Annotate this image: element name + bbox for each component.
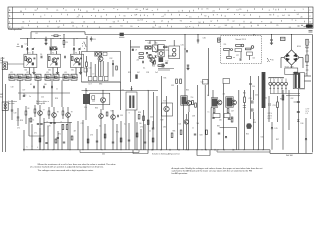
coupling cap C62 <box>297 101 300 103</box>
svg-text:R36: R36 <box>95 108 98 110</box>
ground rail dots <box>43 149 264 150</box>
ground drop wire x88 <box>87 126 89 150</box>
mains bypass cap C61 <box>270 39 272 41</box>
ground drop wire x70 <box>69 122 71 150</box>
mixer cap C31 <box>186 50 188 52</box>
rail end tick <box>23 149 25 152</box>
ground drop wire x40 <box>39 128 41 150</box>
mid wire x120 <box>120 82 122 110</box>
svg-text:97: 97 <box>210 21 212 23</box>
right lower diode <box>305 138 307 140</box>
T1 stub up B <box>32 51 34 54</box>
bottom capacitor Cb1 <box>45 142 47 144</box>
bridge bottom lead <box>291 65 293 68</box>
chassis ground rail <box>23 149 270 151</box>
ground return bus left <box>80 152 139 154</box>
tuner filter labels <box>89 84 103 86</box>
bottom res pair <box>62 125 68 130</box>
det resistor R21 <box>139 53 144 55</box>
ground drop wire x121 <box>120 121 122 150</box>
right edge top marks <box>309 31 313 33</box>
svg-text:1n: 1n <box>25 95 27 97</box>
svg-text:50: 50 <box>99 126 101 128</box>
IF supply wire <box>184 35 186 97</box>
svg-text:21: 21 <box>56 10 58 12</box>
decoupling cap C30 <box>197 39 199 41</box>
filter strip labels <box>10 72 67 74</box>
IF wire x188 <box>188 112 190 150</box>
filter capacitor Cc <box>51 86 53 88</box>
svg-text:The voltages were measured wit: The voltages were measured with a high i… <box>38 169 94 172</box>
svg-text:60: 60 <box>20 11 22 13</box>
svg-text:S6: S6 <box>272 60 274 62</box>
right edge second wire <box>306 39 308 76</box>
bottom mid res A <box>171 133 173 138</box>
filter drop 4 cont <box>61 93 63 107</box>
T15 resistor <box>213 109 215 113</box>
tuner box part <box>84 68 87 72</box>
svg-text:C18: C18 <box>11 87 14 89</box>
output transformer frame <box>293 73 304 89</box>
bottom resistor Rb7 <box>136 133 138 137</box>
right edge resistor Rx1 <box>306 39 309 45</box>
chart pointer blob <box>306 24 313 27</box>
rail left marks <box>27 146 39 149</box>
extra labels D <box>17 95 84 130</box>
output bias resistor R61 <box>282 95 284 100</box>
svg-text:L12: L12 <box>166 61 169 63</box>
svg-text:L9: L9 <box>135 50 137 52</box>
svg-text:77: 77 <box>218 27 220 29</box>
IF amp transistor T14 <box>187 101 192 106</box>
T3 top feed <box>73 38 75 46</box>
chart row divider 2 <box>8 17 313 19</box>
filter gnd cap <box>23 95 25 97</box>
bottom mid res B <box>180 130 182 135</box>
tuner filter row <box>88 77 108 81</box>
T2 internal resistor <box>49 57 51 61</box>
aerial link wire <box>7 63 24 65</box>
svg-text:Where the resistance of a coil: Where the resistance of a coil is less t… <box>38 163 117 166</box>
IF transformer IFT4 <box>227 98 233 107</box>
svg-text:24: 24 <box>212 11 214 13</box>
svg-text:R24: R24 <box>152 66 155 68</box>
right AC labels <box>306 53 308 70</box>
svg-text:51: 51 <box>46 9 48 11</box>
bleeder resistor R52 <box>277 102 279 108</box>
ground drop wire x48 <box>47 126 49 150</box>
R7 leads <box>51 35 54 37</box>
wafer S1b contact row <box>24 14 304 19</box>
svg-text:R12: R12 <box>110 58 113 60</box>
transformer lower wires <box>270 93 300 95</box>
feed wire x250 lower <box>250 90 252 119</box>
mixer bottom wires <box>158 68 174 70</box>
AM labels <box>155 43 183 63</box>
tuning diode D1a <box>26 48 28 50</box>
mains switch contacts <box>267 58 273 62</box>
output diode D16 <box>297 120 299 122</box>
ground drop wire x105 <box>104 124 106 150</box>
ground rail right segment <box>270 152 313 154</box>
svg-text:C62: C62 <box>291 98 294 100</box>
driver transistor T11 <box>99 114 104 119</box>
transformer winding loops <box>269 82 288 85</box>
svg-text:52: 52 <box>134 14 136 16</box>
svg-text:2n: 2n <box>29 96 31 98</box>
left mid specks <box>11 87 31 99</box>
svg-text:400: 400 <box>102 154 105 156</box>
transformer mid dots <box>300 88 305 91</box>
tuner unit box <box>82 52 121 83</box>
filter drop 1 <box>19 80 21 93</box>
svg-text:C19: C19 <box>14 113 17 115</box>
svg-text:R28: R28 <box>55 98 58 100</box>
T4 drop A <box>97 61 99 76</box>
svg-text:R61: R61 <box>280 99 283 101</box>
svg-text:1k5: 1k5 <box>139 123 142 125</box>
svg-text:C39: C39 <box>120 115 123 117</box>
bottom resistor Rb4 <box>87 139 89 143</box>
svg-text:47k: 47k <box>223 94 226 96</box>
svg-text:R81: R81 <box>173 131 176 133</box>
svg-text:C11: C11 <box>93 39 96 41</box>
ground rail bracket right <box>196 150 198 156</box>
T10 emitter wire <box>102 103 104 110</box>
T3 stub up A <box>73 47 75 54</box>
svg-text:34: 34 <box>288 15 290 17</box>
svg-text:T2: T2 <box>52 52 54 54</box>
T2 stub up A <box>50 47 52 54</box>
svg-text:Stellung AM: Stellung AM <box>36 102 46 105</box>
svg-text:81: 81 <box>270 22 272 24</box>
T1 second drop <box>33 68 35 72</box>
rail junction dots <box>63 34 292 35</box>
T2 stub up B <box>56 51 58 54</box>
rail resistor R7 <box>54 35 58 37</box>
mid-left extra cap B <box>17 116 19 118</box>
tuner box wire b <box>94 64 96 77</box>
mid bus wire <box>82 89 159 91</box>
selector row 3 <box>246 48 252 50</box>
smoothing cap C51 <box>251 100 253 103</box>
svg-text:C53: C53 <box>273 105 276 107</box>
svg-text:C71: C71 <box>17 120 20 122</box>
svg-text:C2: C2 <box>25 44 27 46</box>
rail step <box>84 32 86 35</box>
T2 emitter drop <box>52 68 54 75</box>
aerial coupling lead <box>5 84 7 152</box>
det transistor T15 <box>217 100 222 105</box>
det capacitor C22 <box>152 62 154 64</box>
C61 ground <box>271 42 273 44</box>
svg-text:C36: C36 <box>84 107 87 109</box>
det value row <box>128 72 158 74</box>
aerial terminal text <box>0 58 4 64</box>
small rect unit B <box>224 114 230 118</box>
svg-text:10.7: 10.7 <box>89 84 92 86</box>
component marker <box>218 38 221 42</box>
IF amp transistor T10 <box>101 98 106 103</box>
svg-text:20: 20 <box>137 20 139 22</box>
FM stage screen box 1 <box>24 54 37 67</box>
bridge diode D12 <box>293 53 297 57</box>
T9 base resistor <box>62 111 64 115</box>
HT supply rail (left segment) <box>31 31 85 33</box>
T3 internal cap <box>80 57 82 59</box>
band filter section F3 <box>25 74 31 80</box>
marker hatch <box>218 38 221 40</box>
IF wire x177 <box>177 85 179 150</box>
tuner box wire c <box>107 62 109 77</box>
svg-text:68: 68 <box>28 108 30 110</box>
bias wire drop <box>236 127 238 149</box>
T1 emitter drop <box>28 68 30 75</box>
driver transformer bars <box>129 96 131 109</box>
tuning diode D3a <box>73 48 75 50</box>
svg-text:73: 73 <box>77 17 79 19</box>
svg-text:5k6: 5k6 <box>48 70 51 72</box>
T16 resistor <box>227 109 229 113</box>
svg-text:3: 3 <box>198 17 199 19</box>
ground drop wire x58 <box>57 131 59 150</box>
T1 ground symbol <box>33 71 35 73</box>
AGC bus <box>20 37 87 39</box>
bottom mid diode <box>225 136 227 138</box>
svg-text:L22: L22 <box>26 72 29 74</box>
FM stage screen box 3 <box>71 54 84 67</box>
ground drop wire x83 <box>82 120 84 150</box>
svg-text:5: 5 <box>303 9 304 11</box>
svg-text:T3: T3 <box>75 52 77 54</box>
AM mixer top lead <box>173 40 175 46</box>
T10 collector wire <box>102 90 104 97</box>
svg-text:C28: C28 <box>146 72 149 74</box>
AF takeoff wire <box>86 36 88 52</box>
svg-text:36: 36 <box>22 22 24 24</box>
svg-text:14: 14 <box>236 10 238 12</box>
trimmer C3t <box>78 48 80 50</box>
mid-left wire B <box>17 108 19 117</box>
T9 base resistor lead <box>62 107 64 111</box>
svg-text:76: 76 <box>206 9 208 11</box>
det diode transistor T16 <box>232 100 237 105</box>
transistor T3 (FM) <box>75 58 80 63</box>
primary bumps <box>269 76 284 79</box>
transformer top box <box>285 68 298 75</box>
svg-text:L21: L21 <box>10 72 13 74</box>
svg-text:0,1: 0,1 <box>143 68 145 70</box>
transistor T7 <box>38 111 43 116</box>
filter drop 2 <box>37 80 39 93</box>
bottom capacitor Cb3 <box>96 140 98 142</box>
choke leads <box>263 74 265 80</box>
extra labels A <box>161 78 235 126</box>
svg-text:390: 390 <box>44 84 47 86</box>
svg-text:40: 40 <box>17 44 19 46</box>
svg-text:220: 220 <box>224 44 227 46</box>
svg-text:von vorn: von vorn <box>8 102 15 105</box>
component S2 block <box>120 33 124 36</box>
bridge left lead <box>281 57 284 59</box>
mid-left wire C <box>25 106 27 111</box>
IF amp transistor T13 <box>164 106 169 111</box>
tuner box labels <box>89 58 113 76</box>
AM osc box 2 <box>158 50 164 57</box>
svg-text:41: 41 <box>72 25 74 27</box>
svg-text:B30: B30 <box>253 122 256 124</box>
svg-text:R2: R2 <box>36 33 38 35</box>
driver leads <box>100 118 102 150</box>
bottom capacitor Cb4 <box>112 141 114 143</box>
svg-text:C6: C6 <box>40 54 42 56</box>
S2 ticks <box>119 36 124 38</box>
svg-text:R72: R72 <box>58 134 61 136</box>
svg-text:for AM operation.: for AM operation. <box>172 172 189 175</box>
svg-text:R3: R3 <box>66 42 68 44</box>
svg-text:A simple note: Modify the volt: A simple note: Modify the voltages and v… <box>172 167 263 170</box>
bottom mid cap B <box>218 132 220 134</box>
T2 agc arrow <box>50 62 54 66</box>
coupling cap C11 <box>90 38 93 40</box>
svg-text:C23: C23 <box>148 43 151 45</box>
svg-text:3: 3 <box>178 11 179 13</box>
svg-text:77: 77 <box>201 9 203 11</box>
aerial down-lead <box>1 57 3 152</box>
T17 caption <box>253 120 256 125</box>
ground rail bracket left <box>132 150 134 154</box>
mid-left wire A <box>11 100 13 110</box>
right small labels <box>291 98 304 125</box>
svg-text:66: 66 <box>113 22 115 24</box>
output transformer core <box>295 73 297 88</box>
band filter section F4 <box>35 74 41 80</box>
bottom resistor Rb2 <box>55 139 57 143</box>
ratio det coil <box>145 46 148 49</box>
det top wire <box>154 41 156 45</box>
bottom resistor Rb3 <box>71 136 73 140</box>
IF wire x197 <box>196 85 198 150</box>
transistor T8 <box>52 113 57 118</box>
left mid caption <box>8 100 17 105</box>
bottom capacitor Cb2 <box>63 141 65 143</box>
AGC bus dots <box>27 37 78 40</box>
right edge resistor Rx2 <box>306 55 309 62</box>
svg-text:C31: C31 <box>181 45 184 47</box>
wafer S1d right dashes <box>298 25 306 27</box>
svg-text:R38: R38 <box>138 112 141 114</box>
T3 emitter drop <box>75 68 77 75</box>
mixer gnd <box>187 67 189 69</box>
svg-text:110: 110 <box>253 58 256 60</box>
ground drop wire x62 <box>61 124 63 150</box>
svg-text:C73: C73 <box>90 135 93 137</box>
bias wire <box>220 126 237 128</box>
IFT4 frame <box>226 97 234 108</box>
svg-text:0,1: 0,1 <box>207 95 209 97</box>
T7 collector wire <box>39 105 41 111</box>
T8 emitter wire <box>53 117 55 150</box>
svg-text:C40: C40 <box>150 117 153 119</box>
transformer right stub <box>297 89 299 96</box>
wave switch caption <box>36 100 49 105</box>
svg-text:L23: L23 <box>46 72 49 74</box>
T3 second drop <box>80 68 82 72</box>
svg-text:R57: R57 <box>276 139 279 141</box>
tuner box resistor Ra <box>86 62 88 67</box>
T2 inner block <box>55 63 57 66</box>
svg-text:C30: C30 <box>203 38 206 40</box>
regulator transistor T17 <box>247 124 252 129</box>
bottom mid cap A <box>194 133 196 135</box>
T3 internal resistor <box>72 57 74 61</box>
bottom cap pair B <box>50 123 56 124</box>
ratio det transformer <box>153 45 158 52</box>
IF resistor R42 <box>195 103 197 107</box>
small rect unit A <box>213 114 220 118</box>
svg-text:of a resistor marked with an a: of a resistor marked with an asterisk is… <box>30 166 104 169</box>
driver resistors <box>138 115 144 121</box>
right-edge bus wire <box>312 35 314 153</box>
svg-text:switched to the AM band and th: switched to the AM band and the lower se… <box>172 170 253 173</box>
det resistor R22 <box>139 57 144 59</box>
selector wires <box>228 51 230 56</box>
chart right label column <box>307 7 309 28</box>
svg-text:R18: R18 <box>20 120 23 122</box>
tuner box res <box>116 66 118 70</box>
svg-text:5k6: 5k6 <box>24 70 27 72</box>
bottom mid res C <box>206 130 208 135</box>
bus wire x208 <box>208 48 210 96</box>
bottom capacitor Cb7 <box>57 137 59 139</box>
ground drop wire x153 <box>152 121 154 150</box>
svg-text:T9: T9 <box>71 112 73 114</box>
mid right vertical <box>147 90 149 150</box>
chart left label column <box>12 7 14 28</box>
svg-text:24: 24 <box>35 10 37 12</box>
T9 collector wire <box>67 107 69 113</box>
mid-left extra cap A <box>11 109 13 111</box>
T1 internal resistor <box>25 57 27 61</box>
speaker wires <box>304 75 311 77</box>
band filter section F6 <box>53 74 59 80</box>
T13 leads <box>166 96 168 106</box>
svg-text:C33: C33 <box>171 85 174 87</box>
T2 second drop <box>57 68 59 72</box>
svg-text:C80: C80 <box>163 127 166 129</box>
svg-text:95: 95 <box>239 9 241 11</box>
svg-text:1n: 1n <box>56 89 58 91</box>
svg-text:T14: T14 <box>191 97 194 99</box>
svg-text:Lautsprecher: Lautsprecher <box>8 28 22 31</box>
right voltage text <box>306 109 311 116</box>
svg-text:16: 16 <box>83 21 85 23</box>
svg-text:1k: 1k <box>33 120 35 122</box>
ground drop wire x32 <box>31 124 33 150</box>
svg-text:C51: C51 <box>249 98 252 100</box>
detector input mark <box>132 49 134 51</box>
svg-text:Schalter in Stellung AM gezeic: Schalter in Stellung AM gezeichnet <box>152 152 180 155</box>
switch contact chart frame <box>8 7 313 28</box>
ground drop wire x145 <box>144 124 146 150</box>
osc coil L5 <box>50 47 53 50</box>
svg-text:a: a <box>309 42 310 44</box>
T3 agc arrow <box>73 62 77 66</box>
AF transistor T18 <box>184 120 189 125</box>
T2 internal cap <box>57 57 59 59</box>
right lower wire <box>305 118 307 153</box>
output wire x289 <box>288 90 290 130</box>
